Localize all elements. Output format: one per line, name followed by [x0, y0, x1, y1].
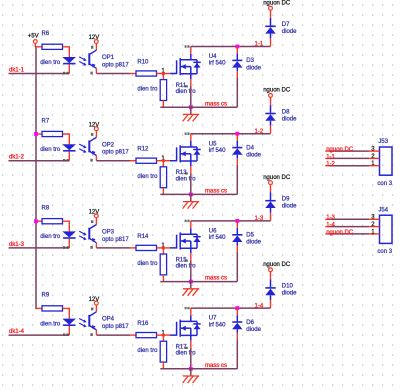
pin mark drain [185, 45, 187, 47]
svg-text:dk1-1: dk1-1 [9, 67, 25, 73]
mosfet U4 [170, 60, 177, 73]
opto LED light arrows [79, 144, 85, 147]
svg-text:12V: 12V [89, 297, 100, 303]
wire R6 to LED [63, 47, 70, 57]
diode D7 flyback [270, 10, 272, 18]
svg-text:dk1-3: dk1-3 [9, 242, 25, 248]
svg-text:R9: R9 [42, 293, 50, 299]
svg-text:irf 540: irf 540 [209, 61, 226, 67]
wire dk1-4 [9, 334, 70, 336]
svg-text:diode: diode [246, 65, 261, 71]
svg-text:D7: D7 [282, 22, 290, 28]
power 12V symbol for OP1 [94, 40, 98, 44]
svg-text:dien tro: dien tro [137, 261, 158, 267]
svg-text:U4: U4 [209, 54, 217, 60]
gate node junction [162, 72, 165, 75]
svg-text:1-2: 1-2 [255, 129, 264, 135]
LED of OP3 [62, 231, 76, 237]
wire net 1-2 [191, 133, 271, 135]
pin marks [91, 220, 93, 223]
svg-text:dien tro: dien tro [176, 176, 197, 182]
svg-text:1-1: 1-1 [255, 42, 264, 48]
wire pin 1 of J53 [325, 165, 329, 167]
resistor R14 [136, 245, 157, 250]
svg-text:nguon DC: nguon DC [326, 147, 354, 153]
wire net 1-3 [191, 220, 271, 222]
resistor R9 [42, 306, 63, 311]
resistor R15 gate-source [162, 248, 164, 254]
wire source to mass [190, 79, 192, 86]
opto LED light arrows [79, 231, 85, 234]
wire rail stub to R6 [36, 46, 42, 48]
ground symbol [190, 194, 192, 201]
svg-text:dien tro: dien tro [40, 234, 61, 240]
wire R16 to gate node [157, 334, 171, 336]
svg-text:1-3: 1-3 [326, 215, 335, 221]
pin marks [63, 72, 65, 75]
wire pin 2 of J54 [325, 226, 329, 228]
svg-text:R14: R14 [137, 234, 149, 240]
svg-text:diode: diode [246, 240, 261, 246]
svg-text:D5: D5 [246, 233, 254, 239]
wire source to mass [190, 253, 192, 260]
pin marks [185, 347, 188, 349]
wire dk1-3 [9, 247, 70, 249]
diode D3 clamp [235, 45, 239, 49]
svg-text:nguon DC: nguon DC [326, 230, 354, 236]
svg-text:irf 540: irf 540 [209, 148, 226, 154]
opto-coupler OP1 phototransistor [95, 43, 97, 50]
resistor R16 [136, 333, 157, 338]
wire drain to net 1-2 [190, 134, 192, 141]
wire R8 to LED [63, 221, 70, 231]
svg-text:OP1: OP1 [102, 55, 115, 61]
svg-text:nguon DC: nguon DC [263, 1, 291, 7]
gate node junction [162, 247, 165, 250]
svg-text:OP4: OP4 [102, 317, 115, 323]
svg-text:J54: J54 [378, 207, 388, 213]
wire net 1-4 [191, 307, 271, 309]
svg-text:1-1: 1-1 [326, 154, 335, 160]
wire dk1-2 [9, 160, 70, 162]
svg-text:diode: diode [246, 153, 261, 159]
svg-text:mass cs: mass cs [205, 189, 227, 195]
resistor R7 [42, 131, 63, 136]
pin marks [91, 133, 93, 136]
pin marks [63, 246, 65, 249]
wire R9 to LED [63, 308, 70, 318]
svg-text:dien tro: dien tro [40, 60, 61, 66]
pin marks [185, 260, 188, 262]
ground symbol [190, 107, 192, 114]
wire R12 to gate node [157, 160, 171, 162]
svg-text:con 3: con 3 [377, 181, 392, 187]
ground symbol [190, 369, 192, 376]
power 12V symbol for OP3 [94, 214, 98, 218]
resistor R10 [136, 71, 157, 76]
svg-text:dien tro: dien tro [137, 348, 158, 354]
wire OP4 emitter to R16 [96, 334, 130, 336]
svg-text:1-4: 1-4 [255, 303, 264, 309]
svg-text:J53: J53 [378, 139, 388, 145]
wire R7 to LED [63, 134, 70, 144]
svg-text:1-4: 1-4 [326, 223, 335, 229]
svg-text:dien tro: dien tro [137, 174, 158, 180]
wire mass cs [160, 368, 237, 370]
svg-text:U6: U6 [209, 229, 217, 235]
junction on +5V rail [34, 132, 38, 136]
opto LED light arrows [79, 319, 85, 322]
wire net 1-1 [191, 46, 271, 48]
wire drain to net 1-4 [190, 308, 192, 315]
pin mark drain [185, 307, 187, 309]
resistor R12 [136, 158, 157, 163]
svg-text:opto p817: opto p817 [102, 324, 129, 330]
diode D10 flyback [270, 272, 272, 280]
opto-coupler OP2 phototransistor [95, 131, 97, 138]
junction source-mass [189, 367, 193, 371]
resistor R8 [42, 219, 63, 224]
svg-text:R12: R12 [137, 147, 149, 153]
resistor R17 gate-source [162, 335, 164, 341]
wire OP1 emitter to R10 [96, 73, 130, 75]
svg-text:1-2: 1-2 [326, 162, 335, 168]
svg-text:opto p817: opto p817 [102, 150, 129, 156]
wire OP3 emitter to R14 [96, 247, 130, 249]
svg-text:diode: diode [282, 29, 297, 35]
svg-text:irf 540: irf 540 [209, 322, 226, 328]
svg-text:OP3: OP3 [102, 230, 115, 236]
svg-text:dien tro: dien tro [40, 321, 61, 327]
resistor R11 gate-source [162, 74, 164, 80]
power 12V symbol for OP4 [94, 301, 98, 305]
wire source to mass [190, 166, 192, 173]
opto-coupler OP3 phototransistor [95, 218, 97, 225]
svg-text:R6: R6 [42, 31, 50, 37]
wire R10 to gate node [157, 73, 171, 75]
svg-text:R16: R16 [137, 321, 149, 327]
svg-text:nguon DC: nguon DC [263, 175, 291, 181]
pin marks [91, 46, 93, 49]
svg-text:nguon DC: nguon DC [263, 88, 291, 94]
diode D8 flyback [270, 97, 272, 105]
opto-coupler OP4 phototransistor [95, 305, 97, 312]
mosfet U6 [170, 235, 177, 248]
pin marks [63, 159, 65, 162]
mosfet U7 [170, 322, 177, 335]
svg-text:mass cs: mass cs [205, 276, 227, 282]
svg-text:D3: D3 [246, 58, 254, 64]
gate node junction [162, 334, 165, 337]
svg-text:opto p817: opto p817 [102, 63, 129, 69]
LED of OP2 [62, 144, 76, 150]
svg-text:D9: D9 [282, 197, 290, 203]
diode D4 clamp [235, 132, 239, 136]
wire pin 1 of J54 [325, 233, 329, 235]
svg-text:D10: D10 [282, 284, 294, 290]
power +5V symbol [33, 40, 37, 44]
pin marks [185, 172, 188, 174]
svg-text:R10: R10 [137, 59, 149, 65]
wire rail stub to R7 [36, 133, 42, 135]
svg-text:dien tro: dien tro [176, 351, 197, 357]
svg-text:dien tro: dien tro [137, 87, 158, 93]
diode D9 flyback [270, 185, 272, 193]
svg-text:nguon DC: nguon DC [263, 262, 291, 268]
svg-text:diode: diode [282, 291, 297, 297]
connector J53 [380, 147, 393, 175]
svg-text:R8: R8 [42, 206, 50, 212]
power 12V symbol for OP2 [94, 127, 98, 131]
svg-text:dk1-2: dk1-2 [9, 155, 25, 161]
wire drain to net 1-1 [190, 47, 192, 54]
svg-text:diode: diode [246, 327, 261, 333]
svg-text:con 3: con 3 [377, 249, 392, 255]
diode D6 clamp [235, 306, 239, 310]
svg-text:dk1-4: dk1-4 [9, 329, 25, 335]
wire pin 3 of J54 [325, 218, 329, 220]
svg-text:12V: 12V [89, 35, 100, 41]
wire rail stub to R9 [36, 307, 42, 309]
gate node junction [162, 159, 165, 162]
junction source-mass [189, 105, 193, 109]
svg-text:OP2: OP2 [102, 142, 115, 148]
svg-text:+5V: +5V [28, 34, 39, 40]
wire mass cs [160, 193, 237, 195]
wire +5V rail vertical [35, 46, 37, 309]
svg-text:irf 540: irf 540 [209, 235, 226, 241]
LED of OP1 [62, 57, 76, 63]
wire pin 3 of J53 [325, 150, 329, 152]
wire dk1-1 [9, 73, 70, 75]
junction on +5V rail [34, 219, 38, 223]
svg-text:diode: diode [282, 204, 297, 210]
svg-text:12V: 12V [89, 210, 100, 216]
wire mass cs [160, 281, 237, 283]
svg-text:mass cs: mass cs [205, 101, 227, 107]
pin mark drain [185, 220, 187, 222]
svg-text:D8: D8 [282, 109, 290, 115]
junction source-mass [189, 280, 193, 284]
svg-text:dien tro: dien tro [40, 147, 61, 153]
wire OP2 emitter to R12 [96, 160, 130, 162]
wire mass cs [160, 106, 237, 108]
wire pin 2 of J53 [325, 157, 329, 159]
svg-text:U7: U7 [209, 316, 217, 322]
connector J54 [380, 215, 393, 243]
wire R14 to gate node [157, 247, 171, 249]
svg-text:dien tro: dien tro [176, 89, 197, 95]
svg-text:mass cs: mass cs [205, 363, 227, 369]
pin mark drain [185, 133, 187, 135]
diode D5 clamp [235, 219, 239, 223]
junction source-mass [189, 193, 193, 197]
opto LED light arrows [79, 57, 85, 60]
resistor R13 gate-source [162, 161, 164, 167]
svg-text:D6: D6 [246, 320, 254, 326]
svg-text:R7: R7 [42, 118, 50, 124]
svg-text:D4: D4 [246, 145, 254, 151]
pin marks [91, 308, 93, 311]
mosfet U5 [170, 147, 177, 160]
pin marks [185, 85, 188, 87]
svg-text:12V: 12V [89, 122, 100, 128]
svg-text:opto p817: opto p817 [102, 237, 129, 243]
svg-text:U5: U5 [209, 141, 217, 147]
pin marks [63, 333, 65, 336]
wire drain to net 1-3 [190, 221, 192, 228]
resistor R6 [42, 44, 63, 49]
LED of OP4 [62, 319, 76, 325]
wire rail stub to R8 [36, 220, 42, 222]
svg-text:1-3: 1-3 [255, 216, 264, 222]
ground symbol [190, 282, 192, 289]
svg-text:diode: diode [282, 116, 297, 122]
svg-text:dien tro: dien tro [176, 264, 197, 270]
wire source to mass [190, 341, 192, 348]
